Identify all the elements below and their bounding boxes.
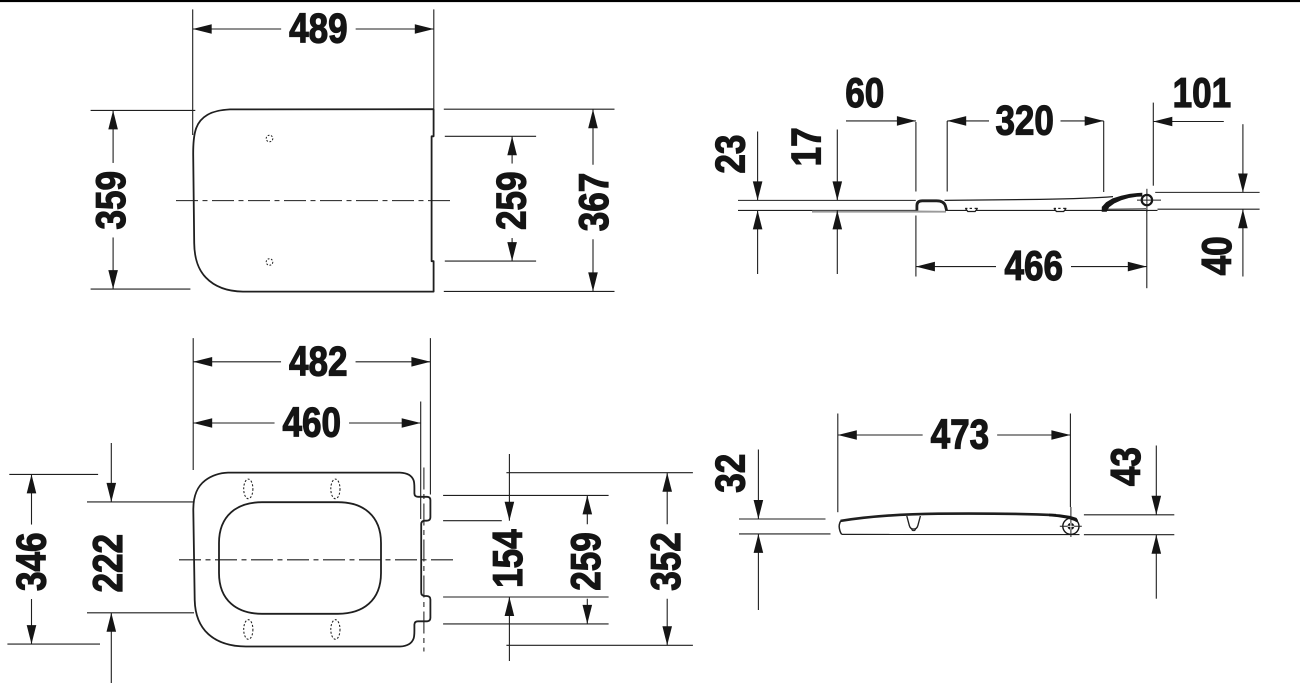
- svg-text:32: 32: [707, 454, 754, 493]
- svg-text:466: 466: [1005, 242, 1064, 289]
- svg-text:359: 359: [87, 171, 134, 230]
- svg-text:320: 320: [995, 97, 1054, 144]
- svg-text:367: 367: [570, 173, 617, 232]
- svg-text:23: 23: [706, 135, 753, 174]
- svg-text:154: 154: [484, 529, 531, 588]
- svg-text:101: 101: [1173, 69, 1232, 116]
- svg-text:460: 460: [283, 399, 342, 446]
- svg-text:489: 489: [289, 5, 348, 52]
- svg-text:17: 17: [782, 127, 829, 166]
- svg-text:222: 222: [84, 534, 131, 593]
- svg-text:259: 259: [562, 532, 609, 591]
- svg-text:482: 482: [289, 337, 348, 384]
- svg-text:352: 352: [642, 532, 689, 591]
- svg-text:346: 346: [7, 533, 54, 592]
- svg-text:259: 259: [487, 172, 534, 231]
- svg-text:40: 40: [1193, 236, 1240, 275]
- svg-text:60: 60: [845, 69, 884, 116]
- svg-text:473: 473: [931, 410, 990, 457]
- svg-text:43: 43: [1102, 447, 1149, 486]
